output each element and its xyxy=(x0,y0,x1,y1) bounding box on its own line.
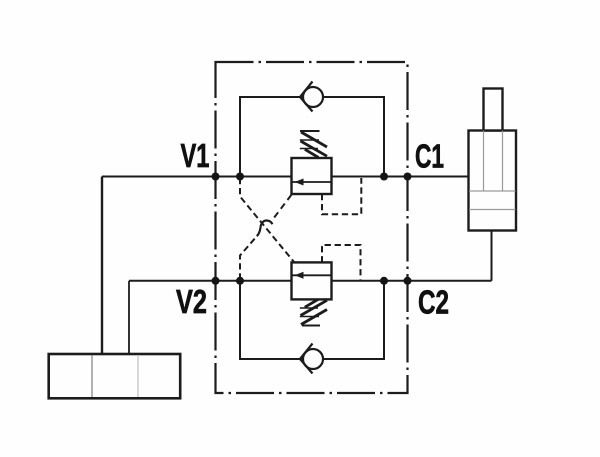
check valve CV2 xyxy=(300,344,323,374)
node V1-border xyxy=(212,173,220,181)
svg-text:C2: C2 xyxy=(418,283,449,320)
wire: top check-valve loop xyxy=(240,97,384,177)
pilot line B: V2 to top valve (dashed diagonal with hop) xyxy=(240,235,258,279)
spring of bottom counterbalance valve xyxy=(300,299,327,325)
node V2-loop-left xyxy=(236,277,244,285)
wire: V1 drop to block xyxy=(101,177,103,356)
pilot hop (omega squiggle) at crossing xyxy=(257,220,273,236)
wire: bottom check-valve loop xyxy=(240,281,384,359)
node V1-loop-left xyxy=(236,173,244,181)
wire: V2-C2 main line right segment xyxy=(332,280,492,282)
check valve CV1 xyxy=(300,82,323,112)
svg-text:C1: C1 xyxy=(415,138,444,175)
actuator block (bottom left) xyxy=(49,354,181,398)
enclosure (valve body boundary, dash-dot) xyxy=(216,62,408,393)
spring of top counterbalance valve xyxy=(300,131,327,158)
node V1-loop-right xyxy=(380,173,388,181)
wire: V2 drop to block xyxy=(128,281,130,355)
cylinder (single-acting ram) xyxy=(469,89,517,231)
wire: V2-C2 main line left segment xyxy=(129,280,292,282)
pilot line (bottom valve internal sense, dashed) xyxy=(322,245,361,280)
pilot line (top valve internal sense, dashed) xyxy=(322,178,361,214)
node V2-loop-right xyxy=(380,277,388,285)
node C1-border xyxy=(404,173,412,181)
counterbalance valve (top) body xyxy=(292,158,332,194)
svg-text:V1: V1 xyxy=(181,137,210,174)
counterbalance valve (bottom) body xyxy=(292,262,332,299)
wire: V1-C1 main line right segment xyxy=(332,176,469,178)
pilot line A: V1 to bottom valve (dashed diagonal) xyxy=(240,178,294,262)
wire: cylinder bottom port riser xyxy=(491,231,493,281)
node V2-border xyxy=(212,277,220,285)
node C2-border xyxy=(404,277,412,285)
wire: V1-C1 main line left segment xyxy=(102,176,292,178)
svg-text:V2: V2 xyxy=(176,283,207,320)
